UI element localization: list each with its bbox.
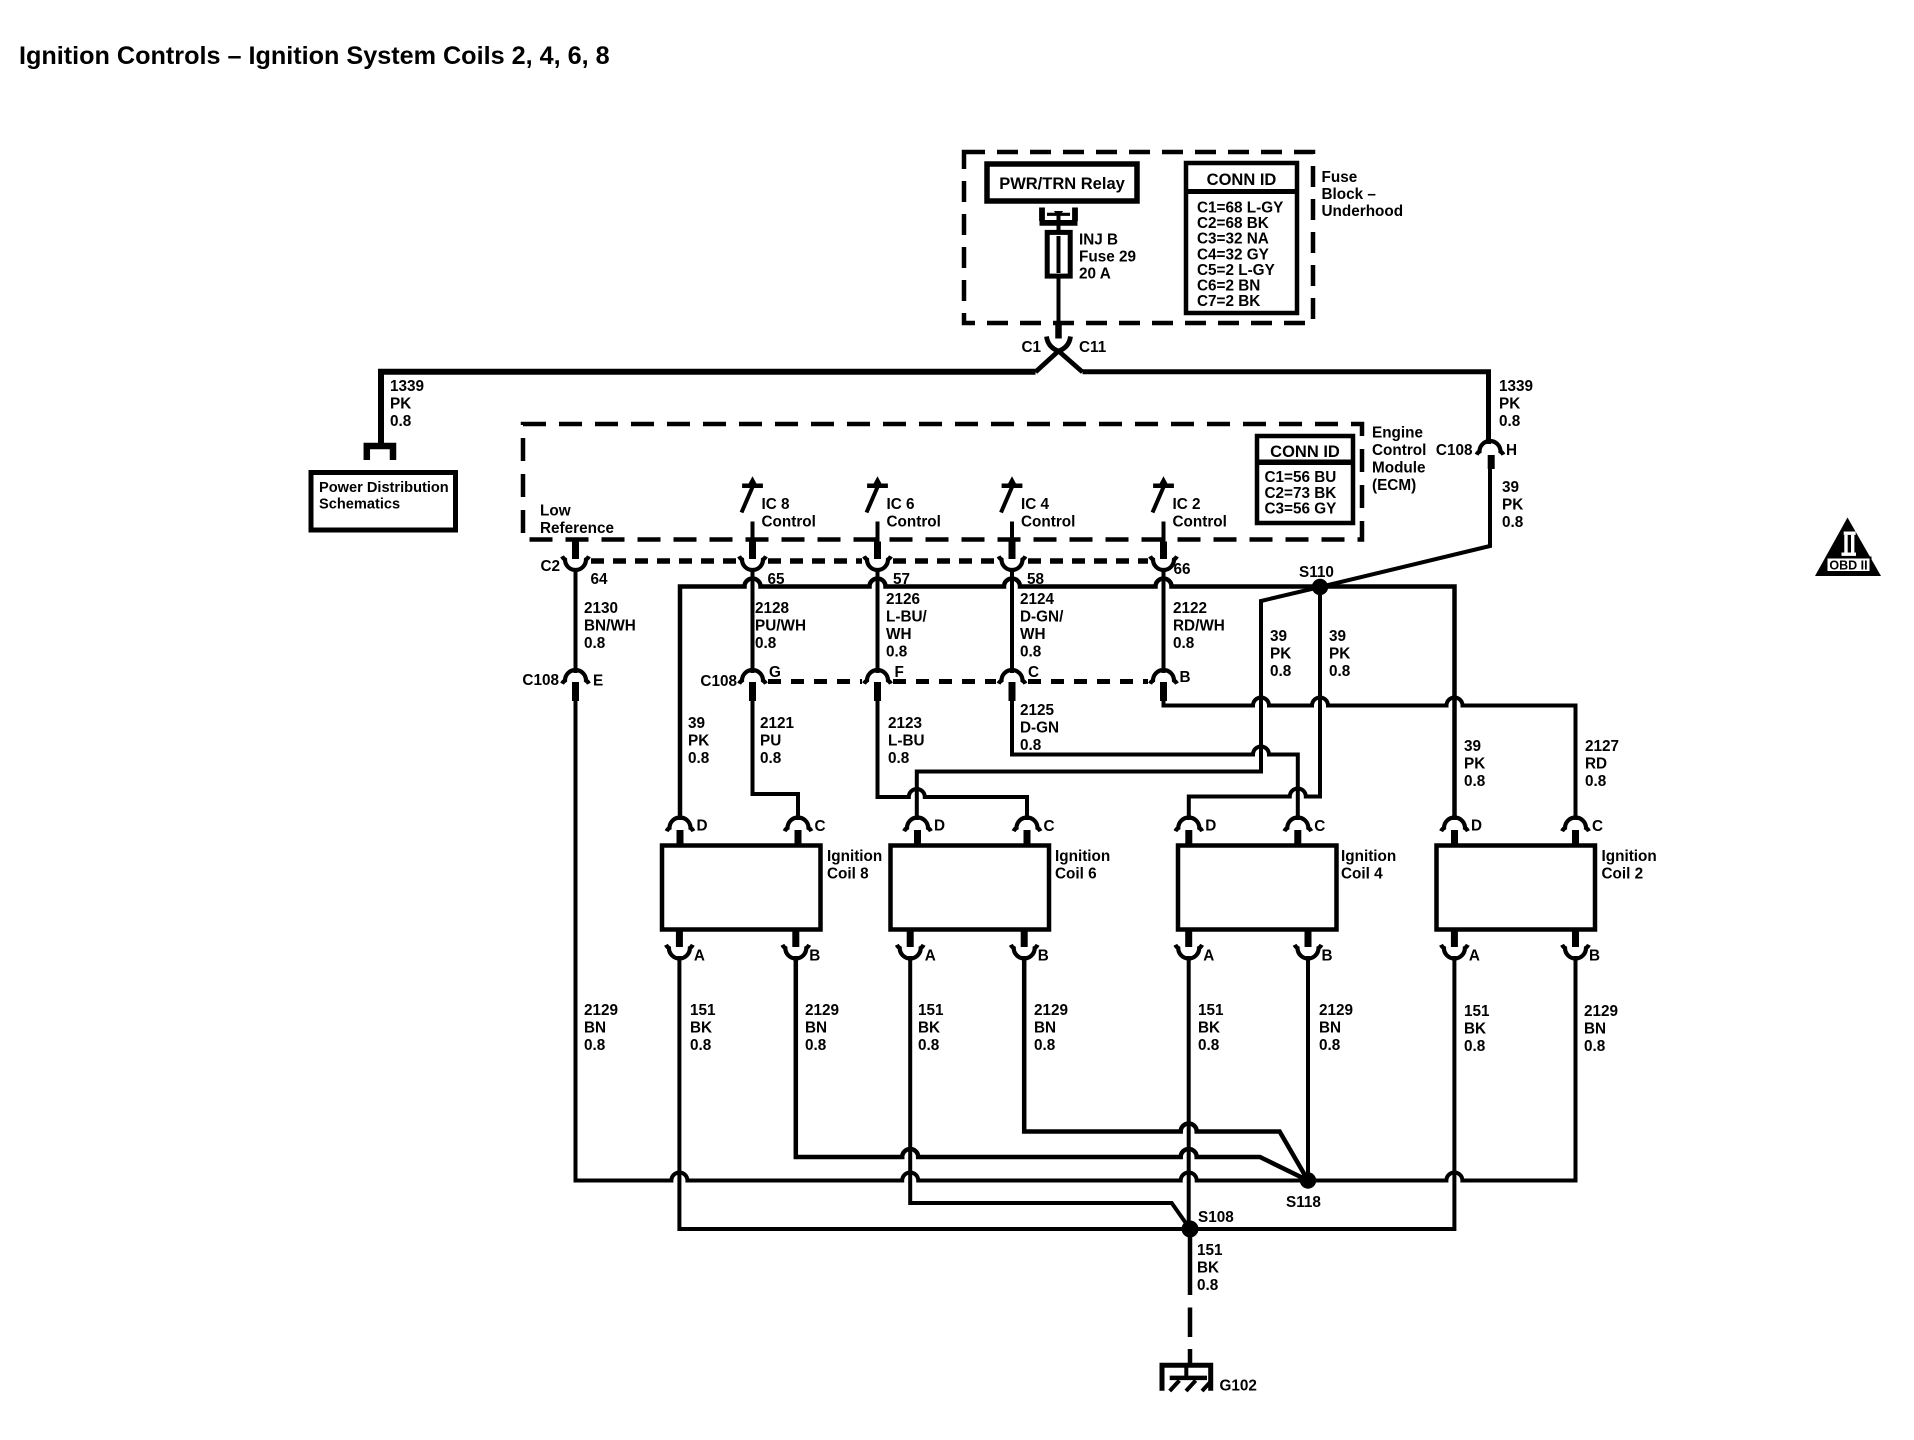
svg-text:C2=73 BK: C2=73 BK <box>1265 485 1337 502</box>
connector C108 pin B <box>1162 570 1166 673</box>
svg-text:C1=68 L-GY: C1=68 L-GY <box>1197 200 1283 217</box>
svg-text:39: 39 <box>1464 738 1481 755</box>
coil 4 pin C <box>1284 818 1311 832</box>
wire 2127 RD B to coil2 C <box>1164 698 1576 821</box>
svg-text:BK: BK <box>1198 1020 1220 1037</box>
svg-text:Coil 4: Coil 4 <box>1341 866 1383 883</box>
svg-text:A: A <box>925 948 936 965</box>
svg-text:39: 39 <box>1270 628 1287 645</box>
svg-text:BN: BN <box>1584 1021 1606 1038</box>
switch IC 4 control driver <box>1002 484 1023 489</box>
svg-text:0.8: 0.8 <box>1270 663 1292 680</box>
svg-text:2129: 2129 <box>1034 1002 1068 1019</box>
svg-text:PK: PK <box>1329 646 1350 663</box>
svg-text:CONN ID: CONN ID <box>1270 443 1340 461</box>
coil 8 pin A <box>676 930 683 948</box>
svg-text:2127: 2127 <box>1585 738 1619 755</box>
svg-text:0.8: 0.8 <box>1197 1277 1219 1294</box>
svg-text:Control: Control <box>1372 442 1426 459</box>
svg-text:0.8: 0.8 <box>755 635 777 652</box>
svg-text:0.8: 0.8 <box>1173 635 1195 652</box>
wire 39 PK rail S110 <box>680 579 1455 821</box>
svg-text:C3=32 NA: C3=32 NA <box>1197 231 1269 248</box>
svg-text:F: F <box>895 664 904 681</box>
svg-text:S110: S110 <box>1299 564 1334 581</box>
svg-text:B: B <box>809 948 820 965</box>
svg-text:C3=56 GY: C3=56 GY <box>1265 501 1337 518</box>
svg-text:WH: WH <box>886 626 912 643</box>
svg-text:39: 39 <box>1329 628 1346 645</box>
svg-text:B: B <box>1322 948 1333 965</box>
svg-text:0.8: 0.8 <box>1584 1038 1606 1055</box>
svg-text:C108: C108 <box>1436 442 1473 459</box>
connector C2 pin 57 <box>874 542 881 560</box>
svg-text:BN: BN <box>1319 1020 1341 1037</box>
wire coil4 B to S118 <box>1306 956 1310 1181</box>
svg-text:2129: 2129 <box>1584 1003 1618 1020</box>
coil 2 pin A <box>1451 930 1458 948</box>
splice S108 <box>1182 1221 1199 1238</box>
svg-text:Coil 8: Coil 8 <box>827 866 869 883</box>
connector C1/C11 <box>1055 323 1062 339</box>
svg-text:0.8: 0.8 <box>584 1037 606 1054</box>
svg-text:C108: C108 <box>522 672 559 689</box>
wire 2125 D-GN C to coil4 C <box>1012 699 1298 820</box>
svg-text:BN: BN <box>1034 1020 1056 1037</box>
svg-text:2130: 2130 <box>584 600 618 617</box>
wire 1339 PK rail <box>381 372 1036 443</box>
svg-text:1339: 1339 <box>1499 378 1533 395</box>
svg-text:OBD II: OBD II <box>1829 559 1867 573</box>
coil 8 pin B <box>792 930 799 948</box>
svg-text:2122: 2122 <box>1173 600 1207 617</box>
coil 2 pin C <box>1562 818 1589 832</box>
splice S110 <box>1312 579 1328 595</box>
svg-text:Schematics: Schematics <box>319 497 400 513</box>
svg-text:Underhood: Underhood <box>1322 203 1404 220</box>
svg-text:Ignition: Ignition <box>1602 848 1657 865</box>
ECM CONN ID table <box>1257 436 1353 523</box>
svg-text:2124: 2124 <box>1020 591 1055 608</box>
svg-text:BN/WH: BN/WH <box>584 618 636 635</box>
connector C2 pin 64 <box>572 542 579 560</box>
svg-text:2129: 2129 <box>584 1002 618 1019</box>
wire relay to C1 <box>1057 216 1061 324</box>
fuse INJ B Fuse 29 20 A <box>1047 232 1070 276</box>
coil 6 pin C <box>1014 818 1041 832</box>
svg-text:0.8: 0.8 <box>690 1037 712 1054</box>
svg-text:151: 151 <box>1198 1002 1224 1019</box>
svg-text:A: A <box>1203 948 1214 965</box>
svg-text:0.8: 0.8 <box>1329 663 1351 680</box>
svg-text:0.8: 0.8 <box>1502 514 1524 531</box>
splice S118 <box>1300 1172 1316 1188</box>
svg-text:20 A: 20 A <box>1079 266 1111 283</box>
wire 39 PK to coil4 D <box>1189 587 1320 820</box>
relay pin bracket <box>1040 208 1078 223</box>
svg-text:(ECM): (ECM) <box>1372 477 1416 494</box>
svg-text:C2: C2 <box>540 558 560 575</box>
svg-text:PK: PK <box>1502 497 1523 514</box>
svg-text:0.8: 0.8 <box>805 1037 827 1054</box>
svg-text:D: D <box>697 818 708 835</box>
svg-text:PK: PK <box>688 733 709 750</box>
svg-text:D-GN: D-GN <box>1020 720 1059 737</box>
svg-text:G: G <box>769 664 781 681</box>
svg-text:D: D <box>1471 818 1482 835</box>
svg-text:D: D <box>1205 818 1216 835</box>
svg-text:S118: S118 <box>1286 1194 1321 1211</box>
svg-text:Control: Control <box>1021 514 1075 531</box>
svg-text:B: B <box>1038 948 1049 965</box>
wire 151 coil4 A to S108 <box>1187 956 1191 1229</box>
svg-text:S108: S108 <box>1198 1209 1234 1226</box>
wire 2129 coil8 B to S118 <box>796 956 1308 1181</box>
svg-text:C6=2 BN: C6=2 BN <box>1197 278 1260 295</box>
svg-text:BN: BN <box>584 1020 606 1037</box>
svg-text:Coil 2: Coil 2 <box>1602 866 1644 883</box>
svg-text:PU: PU <box>760 733 781 750</box>
coil 4 pin B <box>1305 930 1312 948</box>
svg-text:0.8: 0.8 <box>390 413 412 430</box>
svg-text:0.8: 0.8 <box>760 750 782 767</box>
svg-text:BK: BK <box>1197 1260 1219 1277</box>
wire 2129 coil6 B to S118 <box>1024 956 1308 1181</box>
svg-text:IC 4: IC 4 <box>1021 496 1050 513</box>
wire 2123 L-BU F to coil6 C <box>878 699 1028 820</box>
connector C2 pin 66 <box>1160 542 1167 560</box>
connector C108 pin G <box>751 570 755 673</box>
coil 6 pin A <box>907 930 914 948</box>
svg-text:0.8: 0.8 <box>1464 773 1486 790</box>
svg-text:PWR/TRN Relay: PWR/TRN Relay <box>999 175 1125 193</box>
svg-text:C: C <box>1044 818 1055 835</box>
svg-text:BK: BK <box>690 1020 712 1037</box>
svg-text:L-BU/: L-BU/ <box>886 609 928 626</box>
svg-text:IC 6: IC 6 <box>887 496 915 513</box>
svg-text:0.8: 0.8 <box>1319 1037 1341 1054</box>
svg-text:151: 151 <box>690 1002 716 1019</box>
svg-text:0.8: 0.8 <box>1198 1037 1220 1054</box>
svg-text:Control: Control <box>887 514 941 531</box>
svg-text:A: A <box>1469 948 1480 965</box>
svg-text:PU/WH: PU/WH <box>755 618 806 635</box>
svg-text:64: 64 <box>591 571 609 588</box>
svg-text:C7=2 BK: C7=2 BK <box>1197 293 1260 310</box>
svg-text:151: 151 <box>1464 1003 1490 1020</box>
ignition coil 8 <box>662 846 821 930</box>
coil 4 pin D <box>1175 818 1202 832</box>
svg-text:PK: PK <box>1270 646 1291 663</box>
svg-text:G102: G102 <box>1220 1378 1257 1395</box>
svg-text:C2=68 BK: C2=68 BK <box>1197 215 1269 232</box>
OBD II marker <box>1815 518 1881 577</box>
svg-text:2126: 2126 <box>886 591 920 608</box>
wire 151 BK to ground <box>1188 1229 1193 1295</box>
svg-text:C: C <box>1592 818 1603 835</box>
svg-text:PK: PK <box>1499 396 1520 413</box>
svg-text:Ignition: Ignition <box>827 848 882 865</box>
svg-text:H: H <box>1506 442 1517 459</box>
svg-text:A: A <box>694 948 705 965</box>
svg-text:0.8: 0.8 <box>886 644 908 661</box>
svg-text:2121: 2121 <box>760 715 795 732</box>
svg-text:D-GN/: D-GN/ <box>1020 609 1064 626</box>
svg-text:BN: BN <box>805 1020 827 1037</box>
svg-text:C108: C108 <box>700 673 737 690</box>
svg-text:2129: 2129 <box>805 1002 839 1019</box>
svg-text:Ignition Controls – Ignition S: Ignition Controls – Ignition System Coil… <box>19 42 610 70</box>
svg-text:39: 39 <box>688 715 705 732</box>
wire 151 bus coil8 A to coil2 A through S108 <box>679 956 1454 1229</box>
wire 39 PK to coil6 D <box>917 587 1320 820</box>
fuse block - underhood dashed box <box>964 152 1313 323</box>
svg-text:INJ B: INJ B <box>1079 232 1118 249</box>
svg-text:L-BU: L-BU <box>888 733 925 750</box>
PWR/TRN Relay box <box>987 164 1137 201</box>
svg-text:Control: Control <box>762 514 816 531</box>
wire 151 coil6 A to S108 <box>910 956 1190 1229</box>
CONN ID table (fuse block) <box>1186 163 1297 313</box>
svg-text:0.8: 0.8 <box>1034 1037 1056 1054</box>
svg-text:IC 2: IC 2 <box>1173 496 1201 513</box>
svg-text:2123: 2123 <box>888 715 922 732</box>
svg-text:151: 151 <box>1197 1242 1223 1259</box>
Engine Control Module dashed box <box>523 424 1362 540</box>
wire 39 PK from H to S110 <box>1320 466 1490 587</box>
svg-text:0.8: 0.8 <box>1020 644 1042 661</box>
svg-text:C1=56 BU: C1=56 BU <box>1265 469 1337 486</box>
connector row C2 dotted line <box>591 558 737 564</box>
svg-text:C4=32 GY: C4=32 GY <box>1197 246 1269 263</box>
connector C108 pin E <box>574 570 578 673</box>
svg-text:0.8: 0.8 <box>918 1037 940 1054</box>
svg-text:BK: BK <box>1464 1021 1486 1038</box>
svg-text:C: C <box>815 818 826 835</box>
svg-text:Power Distribution: Power Distribution <box>319 480 449 496</box>
wire 2121 PU G to coil8 C <box>753 699 799 820</box>
svg-text:0.8: 0.8 <box>688 750 710 767</box>
svg-text:B: B <box>1180 669 1191 686</box>
svg-text:C1: C1 <box>1022 339 1042 356</box>
svg-text:D: D <box>934 818 945 835</box>
svg-text:Coil 6: Coil 6 <box>1055 866 1097 883</box>
coil 8 pin C <box>785 818 812 832</box>
svg-text:Block –: Block – <box>1322 186 1377 203</box>
coil 2 pin D <box>1441 818 1468 832</box>
svg-text:PK: PK <box>390 396 411 413</box>
coil 2 pin B <box>1572 930 1579 948</box>
svg-text:Fuse: Fuse <box>1322 169 1358 186</box>
svg-text:Ignition: Ignition <box>1341 848 1396 865</box>
Power Distribution Schematics box <box>311 473 456 531</box>
svg-text:C11: C11 <box>1079 339 1107 356</box>
svg-text:2125: 2125 <box>1020 702 1055 719</box>
svg-text:Module: Module <box>1372 460 1426 477</box>
svg-text:BK: BK <box>918 1020 940 1037</box>
svg-text:0.8: 0.8 <box>1585 773 1607 790</box>
svg-text:PK: PK <box>1464 756 1485 773</box>
svg-text:C: C <box>1314 818 1325 835</box>
svg-text:0.8: 0.8 <box>1020 737 1042 754</box>
connector C108 pin H <box>1477 441 1504 455</box>
svg-text:1339: 1339 <box>390 378 424 395</box>
svg-text:WH: WH <box>1020 626 1046 643</box>
switch IC 6 control driver <box>867 484 888 489</box>
switch IC 8 control driver <box>742 484 763 489</box>
connector C108 pin C <box>1010 570 1014 673</box>
svg-text:E: E <box>593 673 603 690</box>
svg-text:151: 151 <box>918 1002 944 1019</box>
svg-text:CONN ID: CONN ID <box>1207 171 1277 189</box>
svg-text:IC 8: IC 8 <box>762 496 791 513</box>
svg-text:Low: Low <box>540 503 571 520</box>
connector C2 pin 58 <box>1009 542 1016 560</box>
ignition coil 2 <box>1437 846 1596 930</box>
svg-text:RD: RD <box>1585 756 1607 773</box>
svg-text:0.8: 0.8 <box>584 635 606 652</box>
svg-text:66: 66 <box>1174 561 1191 578</box>
svg-text:0.8: 0.8 <box>1499 413 1521 430</box>
coil 6 pin B <box>1021 930 1028 948</box>
svg-text:2128: 2128 <box>755 600 790 617</box>
svg-text:RD/WH: RD/WH <box>1173 618 1225 635</box>
connector C2 pin 65 <box>749 542 756 560</box>
connector row C108 dashed line <box>768 679 862 684</box>
ignition coil 6 <box>891 846 1050 930</box>
svg-text:Fuse 29: Fuse 29 <box>1079 249 1136 266</box>
svg-text:Ignition: Ignition <box>1055 848 1110 865</box>
coil 4 pin A <box>1185 930 1192 948</box>
svg-text:0.8: 0.8 <box>888 750 910 767</box>
svg-text:Control: Control <box>1173 514 1227 531</box>
svg-text:Reference: Reference <box>540 520 614 537</box>
ground G102 <box>1162 1365 1211 1390</box>
coil 8 pin D <box>667 818 694 832</box>
svg-text:Engine: Engine <box>1372 425 1423 442</box>
svg-text:C: C <box>1028 664 1039 681</box>
connector C108 pin F <box>876 570 880 673</box>
svg-text:2129: 2129 <box>1319 1002 1353 1019</box>
svg-text:B: B <box>1589 948 1600 965</box>
wire 2129 bus E to coil2 B through S118 <box>576 697 1576 1181</box>
svg-text:0.8: 0.8 <box>1464 1038 1486 1055</box>
ignition coil 4 <box>1178 846 1337 930</box>
coil 6 pin D <box>904 818 931 832</box>
switch IC 2 control driver <box>1153 484 1174 489</box>
off-page bracket to Power Distribution <box>367 446 393 460</box>
svg-text:C5=2 L-GY: C5=2 L-GY <box>1197 262 1275 279</box>
svg-text:39: 39 <box>1502 479 1519 496</box>
